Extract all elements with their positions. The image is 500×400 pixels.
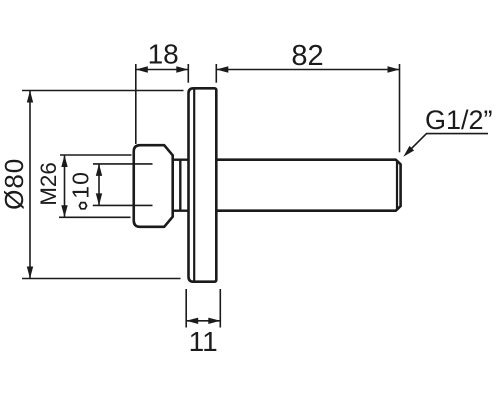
dim 18 right arrow bbox=[176, 66, 188, 72]
dim hex10 line bbox=[98, 164, 100, 206]
dim 11 left extension line bbox=[185, 289, 187, 328]
hexagon symbol bbox=[79, 203, 86, 209]
dim 11 right extension line bbox=[219, 289, 221, 328]
dim 18 left extension line bbox=[135, 64, 137, 144]
neck bottom edge bbox=[173, 209, 189, 211]
dim D80 bottom extension line bbox=[22, 278, 181, 280]
dim 18 left arrow bbox=[136, 66, 148, 72]
dim D80 line bbox=[29, 91, 31, 279]
neck step line bbox=[179, 160, 181, 211]
dim 18 / 82 shared flange-left extension line bbox=[187, 64, 189, 83]
svg-text:G1/2”: G1/2” bbox=[425, 105, 493, 135]
dim M26 top extension line bbox=[60, 154, 132, 156]
dim 82 left arrow bbox=[216, 66, 228, 72]
svg-text:82: 82 bbox=[291, 40, 323, 72]
dim D80 top arrow bbox=[27, 91, 33, 103]
flange chamfer line bbox=[193, 89, 195, 280]
dim hex10 top arrow bbox=[96, 164, 102, 176]
svg-text:11: 11 bbox=[189, 326, 218, 357]
svg-text:10: 10 bbox=[68, 171, 94, 199]
pipe thread chamfer line bbox=[396, 161, 398, 210]
dim 82 line bbox=[216, 69, 399, 71]
svg-text:18: 18 bbox=[148, 39, 179, 70]
bore line top (extension for hex 10) bbox=[93, 163, 153, 165]
dim 82 flange-right extension line bbox=[215, 64, 217, 83]
G1/2 leader line bbox=[406, 134, 488, 154]
neck top edge bbox=[173, 158, 189, 160]
dim 82 right extension line bbox=[399, 64, 401, 152]
dim 11 left arrow bbox=[186, 318, 198, 324]
nut body bbox=[134, 145, 173, 227]
dim M26 bottom extension line bbox=[59, 216, 131, 218]
dim 18 line bbox=[136, 69, 189, 71]
pipe outline bbox=[216, 160, 400, 211]
bore line bottom (extension for hex 10) bbox=[93, 204, 153, 206]
svg-text:Ø80: Ø80 bbox=[0, 158, 29, 210]
dim 11 line bbox=[186, 320, 220, 322]
G1/2 leader arrow bbox=[403, 146, 414, 157]
dim D80 bottom arrow bbox=[27, 267, 33, 279]
flange body bbox=[189, 88, 217, 281]
dim 11 right arrow bbox=[208, 318, 220, 324]
svg-text:M26: M26 bbox=[36, 162, 61, 206]
dim hex10 bottom arrow bbox=[96, 193, 102, 205]
dim M26 bottom arrow bbox=[61, 205, 67, 217]
dim M26 top arrow bbox=[61, 155, 67, 167]
dim M26 line bbox=[64, 155, 66, 217]
dim D80 top extension line bbox=[22, 90, 184, 92]
dim 82 right arrow bbox=[388, 66, 400, 72]
